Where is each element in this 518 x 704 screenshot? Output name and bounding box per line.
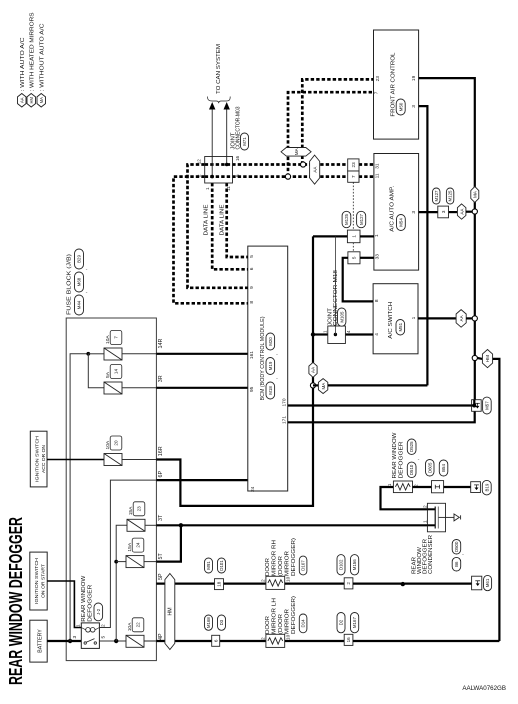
wire heated mirror ground riser bbox=[493, 359, 500, 641]
svg-text:DOOR: DOOR bbox=[265, 558, 271, 576]
wire pin5 to amp pin 33 bbox=[360, 257, 374, 259]
junction circle heated mirror branch bbox=[472, 355, 477, 360]
svg-text:IGNITION SWITCH: IGNITION SWITCH bbox=[34, 436, 40, 482]
svg-text:8: 8 bbox=[249, 301, 255, 304]
svg-text:1: 1 bbox=[205, 187, 210, 190]
CAN bus data line lower M71 to A/C auto amp pin 11 bbox=[205, 175, 374, 178]
legend badge AA : WITH AUTO A/C bbox=[18, 94, 27, 108]
svg-text:DATA LINE: DATA LINE bbox=[204, 204, 210, 236]
wire 4P to door mirror LH defogger bbox=[156, 640, 266, 642]
joint connector M18 box M105 bbox=[313, 333, 328, 335]
svg-text:5: 5 bbox=[249, 255, 255, 258]
rear window defogger element D510 D525 bbox=[393, 481, 412, 493]
svg-text:D525: D525 bbox=[409, 441, 414, 452]
svg-text:6: 6 bbox=[213, 639, 218, 642]
svg-text:,: , bbox=[83, 292, 89, 293]
fuse 15A number 23 bbox=[127, 519, 145, 531]
svg-text:11: 11 bbox=[226, 186, 231, 191]
wire 6P BCM pin 24 relay control bbox=[156, 479, 247, 481]
connector labels M125 M127 bbox=[342, 211, 351, 227]
svg-text:BCM (BODY CONTROL MODULE): BCM (BODY CONTROL MODULE) bbox=[260, 316, 266, 400]
svg-text:10: 10 bbox=[286, 634, 292, 640]
fuse 10A number 7 bbox=[104, 348, 122, 360]
svg-text:161: 161 bbox=[249, 351, 255, 359]
a/c switch box M51 bbox=[373, 284, 418, 354]
svg-text:14R: 14R bbox=[158, 339, 164, 349]
battery box bbox=[30, 620, 47, 662]
svg-text:ACC OR ON: ACC OR ON bbox=[41, 445, 47, 473]
wire BCM pin 171 to ground M57 bbox=[288, 411, 475, 422]
svg-text:16: 16 bbox=[235, 155, 240, 161]
wire riser to fuses 23 and 24 bbox=[116, 525, 127, 641]
svg-text:: WITH HEATED MIRRORS: : WITH HEATED MIRRORS bbox=[30, 12, 36, 91]
wire front air control pin 19 ground rail bbox=[419, 78, 475, 400]
svg-text:2: 2 bbox=[260, 637, 266, 640]
flag MA on front air control CAN branch bbox=[281, 148, 311, 157]
relay J-2 rear window defogger bbox=[81, 623, 99, 649]
svg-text:3R: 3R bbox=[158, 375, 164, 382]
svg-text:23: 23 bbox=[137, 506, 142, 512]
svg-text:M125: M125 bbox=[344, 213, 349, 225]
flag HM on mirror ground branch bbox=[477, 357, 482, 360]
svg-text:,: , bbox=[83, 269, 89, 270]
arrows to CAN system bbox=[209, 102, 215, 110]
svg-text:M91: M91 bbox=[206, 561, 211, 570]
junction battery riser bbox=[68, 639, 72, 643]
wire 14R fuse 7 to BCM pin 161 bbox=[156, 353, 247, 355]
svg-text:A/C SWITCH: A/C SWITCH bbox=[388, 302, 394, 339]
fuse 15A number 24 bbox=[126, 556, 144, 568]
wire 5P to door mirror RH defogger bbox=[156, 582, 266, 584]
wire front air control pin 3 rail bbox=[419, 106, 428, 385]
svg-text:: WITH AUTO A/C: : WITH AUTO A/C bbox=[20, 37, 26, 91]
svg-text:3: 3 bbox=[441, 210, 446, 213]
svg-text:7: 7 bbox=[114, 336, 119, 339]
wire a/c switch pin 1 to ground rail bbox=[418, 317, 456, 319]
svg-text:(DOOR: (DOOR bbox=[278, 614, 284, 634]
svg-text:BATTERY: BATTERY bbox=[38, 629, 44, 653]
wire to ground B19 bbox=[444, 486, 471, 488]
svg-text:D605: D605 bbox=[427, 462, 432, 473]
wire 16R fuse 20 to A/C acc rail bbox=[156, 236, 313, 506]
flag MA on front air acc branch bbox=[313, 384, 318, 386]
svg-text:REAR WINDOW: REAR WINDOW bbox=[392, 432, 398, 478]
svg-text:D3: D3 bbox=[219, 619, 224, 625]
svg-text:170: 170 bbox=[281, 398, 287, 406]
svg-text:,: , bbox=[273, 378, 279, 379]
wire 3T fuse 23 to defogger rail bbox=[156, 524, 427, 526]
svg-text:16: 16 bbox=[346, 637, 351, 643]
svg-text:M68: M68 bbox=[77, 277, 82, 286]
svg-text:6P: 6P bbox=[158, 471, 164, 478]
svg-text:24: 24 bbox=[250, 486, 256, 492]
junction 3T/5T bbox=[179, 523, 183, 527]
svg-text:1: 1 bbox=[422, 520, 428, 523]
flag MA on ground rail bbox=[471, 187, 479, 203]
junction circle acc variants bbox=[310, 383, 315, 388]
wire BCM pin 170 to ground M57 bbox=[288, 404, 472, 406]
svg-text:7: 7 bbox=[351, 175, 356, 178]
svg-text:3: 3 bbox=[411, 211, 417, 214]
svg-text:18: 18 bbox=[217, 581, 222, 587]
inline connector 2 D102/M156 bbox=[344, 578, 353, 589]
fuse 5A number 14 bbox=[104, 382, 122, 394]
svg-text:11: 11 bbox=[375, 173, 381, 178]
brace to CAN system bbox=[208, 97, 231, 104]
svg-text:9: 9 bbox=[249, 286, 255, 289]
svg-text:2: 2 bbox=[346, 582, 351, 585]
svg-text:D14: D14 bbox=[301, 619, 306, 628]
svg-text:IGNITION SWITCH: IGNITION SWITCH bbox=[34, 558, 40, 604]
svg-text:2: 2 bbox=[101, 624, 107, 627]
svg-text:B29: B29 bbox=[77, 255, 82, 263]
svg-text:HM: HM bbox=[29, 96, 34, 103]
svg-text:B19: B19 bbox=[484, 483, 489, 491]
svg-text:3T: 3T bbox=[158, 514, 164, 521]
junction fuse 23/24 riser bbox=[114, 639, 118, 643]
svg-text:2: 2 bbox=[422, 505, 428, 508]
svg-text:1: 1 bbox=[411, 316, 417, 319]
junction circle switch ground bbox=[472, 316, 477, 321]
svg-text:D510: D510 bbox=[409, 464, 414, 475]
svg-text:1: 1 bbox=[374, 234, 380, 237]
junction circle CAN lower bbox=[285, 174, 290, 179]
wire battery riser to fuses 7 and 14 bbox=[70, 354, 88, 641]
flag AA on acc rail bbox=[309, 362, 317, 377]
svg-text:M57: M57 bbox=[485, 401, 490, 410]
svg-text:D102: D102 bbox=[339, 559, 344, 570]
svg-text:AA: AA bbox=[311, 366, 316, 373]
svg-text:12: 12 bbox=[197, 159, 202, 165]
svg-text:CONDENSER: CONDENSER bbox=[428, 535, 434, 574]
svg-text:A/C AUTO AMP.: A/C AUTO AMP. bbox=[390, 185, 396, 232]
svg-text:TO CAN SYSTEM: TO CAN SYSTEM bbox=[216, 43, 222, 94]
svg-text:23: 23 bbox=[375, 76, 381, 82]
svg-text:MA: MA bbox=[321, 382, 326, 390]
svg-text:1: 1 bbox=[76, 624, 82, 627]
svg-text:2: 2 bbox=[260, 579, 266, 582]
door mirror RH defogger element D107 bbox=[266, 576, 285, 589]
svg-text:3: 3 bbox=[72, 636, 78, 639]
ground M57 bbox=[472, 400, 482, 412]
svg-text:D2: D2 bbox=[339, 619, 344, 625]
svg-text:B54: B54 bbox=[441, 464, 446, 472]
svg-text:REAR WINDOW DEFOGGER: REAR WINDOW DEFOGGER bbox=[6, 517, 26, 685]
flag AA on amp ground wire bbox=[457, 204, 466, 219]
ignition switch on or start box bbox=[30, 552, 47, 610]
wire MA branch to front air control pin 3 bbox=[328, 384, 428, 386]
svg-text:D101: D101 bbox=[219, 560, 224, 571]
svg-text:AA: AA bbox=[459, 314, 464, 321]
wire relay pin 2 to 6P bbox=[99, 480, 156, 627]
svg-text:23: 23 bbox=[351, 162, 356, 168]
CAN bus data line to BCM pin 5 bbox=[227, 183, 248, 257]
wire acc rail to joint connector pin 1 and amp pin 1 bbox=[313, 235, 347, 237]
svg-text:M19: M19 bbox=[268, 361, 273, 370]
svg-text:M125: M125 bbox=[448, 190, 453, 202]
svg-text:16R: 16R bbox=[158, 446, 164, 456]
legend badge HM : WITH HEATED MIRRORS bbox=[27, 94, 36, 108]
inline connector pin 3 box M125/M127 bbox=[438, 206, 449, 218]
svg-text:M127: M127 bbox=[359, 213, 364, 225]
legend badge MA : WITHOUT AUTO A/C bbox=[37, 94, 46, 108]
inline connector 18 M91/D101 bbox=[215, 579, 224, 590]
svg-text:M61: M61 bbox=[485, 578, 490, 587]
svg-text:DEFOGGER): DEFOGGER) bbox=[291, 538, 297, 576]
svg-text:AA: AA bbox=[459, 208, 464, 215]
svg-text:M167: M167 bbox=[352, 617, 357, 629]
svg-text:,: , bbox=[459, 554, 465, 555]
svg-text:M51: M51 bbox=[398, 322, 403, 331]
svg-text:M71: M71 bbox=[242, 137, 247, 146]
svg-text:DATA LINE: DATA LINE bbox=[219, 204, 225, 236]
wire battery feed to relay and fuse 22 bbox=[47, 640, 81, 642]
junction circle CAN upper bbox=[301, 162, 306, 167]
svg-text:: WITHOUT AUTO A/C: : WITHOUT AUTO A/C bbox=[40, 23, 46, 91]
CAN bus data line to BCM pin 6 bbox=[212, 183, 248, 269]
rear window defogger condenser B6 D500 bbox=[427, 503, 445, 532]
svg-text:20: 20 bbox=[114, 440, 119, 446]
svg-text:95: 95 bbox=[249, 386, 255, 392]
svg-text:J-2: J-2 bbox=[96, 608, 101, 615]
svg-text:MIRROR: MIRROR bbox=[285, 609, 291, 634]
svg-text:D107: D107 bbox=[301, 560, 306, 571]
junction mirror ground bbox=[401, 582, 405, 586]
svg-text:5: 5 bbox=[352, 256, 357, 259]
svg-text:7: 7 bbox=[374, 91, 380, 94]
svg-text:M20: M20 bbox=[268, 337, 273, 346]
joint connector M71 box bbox=[205, 157, 233, 184]
svg-text:MA: MA bbox=[39, 97, 44, 103]
CAN bus data line M71 pin12 to BCM pin 9 bbox=[188, 165, 248, 288]
ignition switch acc or on box bbox=[30, 431, 47, 487]
CAN bus data line upper M71 to A/C auto amp pin 31 bbox=[205, 163, 374, 166]
condenser case ground arrow bbox=[454, 514, 459, 521]
a/c auto amp box M54 bbox=[374, 154, 419, 271]
svg-text:6: 6 bbox=[249, 267, 255, 270]
wire 3R fuse 14 to BCM pin 95 bbox=[156, 387, 247, 389]
inline connector 16 D2/M167 bbox=[344, 634, 353, 645]
CAN branch to front air control pin 23 bbox=[302, 79, 373, 164]
wire pin5 branch to a/c switch pin 8 bbox=[343, 258, 373, 302]
svg-text:REAR WINDOW: REAR WINDOW bbox=[81, 575, 87, 621]
svg-text:DEFOGGER): DEFOGGER) bbox=[291, 596, 297, 634]
svg-text:4: 4 bbox=[374, 333, 380, 336]
svg-text:2: 2 bbox=[197, 174, 202, 177]
svg-text:5P: 5P bbox=[158, 573, 164, 580]
svg-text:5T: 5T bbox=[158, 553, 164, 560]
svg-text:DEFOGGER: DEFOGGER bbox=[87, 584, 93, 621]
svg-text:FRONT AIR CONTROL: FRONT AIR CONTROL bbox=[391, 53, 397, 117]
flag AA on switch ground wire bbox=[456, 310, 466, 328]
svg-text:,: , bbox=[273, 354, 279, 355]
svg-text:22: 22 bbox=[136, 622, 141, 628]
svg-text:M127: M127 bbox=[434, 190, 439, 202]
svg-text:14: 14 bbox=[114, 369, 119, 375]
CAN bus data line M71 pin2 to BCM pin 8 bbox=[174, 177, 248, 304]
flag AA on A/C auto amp CAN branch bbox=[310, 155, 320, 184]
svg-text:171: 171 bbox=[281, 416, 287, 424]
BCM body control module box M18 M19 M20 bbox=[248, 246, 288, 491]
svg-text:M44: M44 bbox=[77, 300, 82, 309]
svg-text:33: 33 bbox=[375, 254, 381, 260]
svg-text:AALWA0762GB: AALWA0762GB bbox=[462, 685, 506, 692]
CAN branch to front air control pin 7 bbox=[288, 92, 374, 176]
svg-text:5: 5 bbox=[101, 636, 107, 639]
svg-text:19: 19 bbox=[411, 75, 417, 81]
svg-text:DEFOGGER: DEFOGGER bbox=[399, 441, 405, 478]
svg-text:D500: D500 bbox=[454, 541, 459, 552]
fuse block J/B outline bbox=[66, 318, 156, 661]
svg-text:M168: M168 bbox=[206, 617, 211, 629]
svg-text:10: 10 bbox=[286, 576, 292, 582]
inline connector pin 1 on acc wire bbox=[347, 230, 360, 243]
fuse 10A number 20 bbox=[104, 454, 122, 466]
flag HM on mirror feed bbox=[165, 574, 175, 650]
inline connector 6 M168/D3 bbox=[212, 635, 220, 646]
svg-text:B6: B6 bbox=[454, 561, 459, 567]
svg-text:4P: 4P bbox=[158, 633, 164, 640]
inline connector pins 23 and 7 of M125/M127 on CAN bus bbox=[348, 159, 359, 171]
wire mirror RH to ground M61 bbox=[285, 582, 345, 584]
svg-text:MIRROR RH: MIRROR RH bbox=[272, 540, 278, 576]
svg-text:M105: M105 bbox=[339, 311, 344, 323]
svg-text:M156: M156 bbox=[352, 559, 357, 571]
ground B19 bbox=[471, 482, 481, 493]
inline connector D605 B54 bbox=[432, 481, 444, 493]
svg-text:MIRROR: MIRROR bbox=[285, 551, 291, 576]
svg-text:AA: AA bbox=[312, 166, 317, 173]
svg-text:MA: MA bbox=[473, 190, 478, 198]
svg-text:M50: M50 bbox=[398, 102, 403, 111]
wire defogger to inline connector D605/B54 bbox=[413, 486, 432, 488]
svg-text:MIRROR LH: MIRROR LH bbox=[272, 598, 278, 634]
svg-text:24: 24 bbox=[136, 542, 141, 548]
svg-text:3: 3 bbox=[411, 105, 417, 108]
svg-text:M54: M54 bbox=[399, 218, 404, 227]
wire ignition acc to fuse 20 bbox=[47, 459, 104, 461]
svg-text:DOOR: DOOR bbox=[265, 616, 271, 634]
svg-text:FUSE BLOCK (J/B): FUSE BLOCK (J/B) bbox=[67, 254, 73, 315]
svg-text:1: 1 bbox=[387, 483, 393, 486]
fuse 10A number 22 bbox=[126, 635, 144, 647]
svg-text:AA: AA bbox=[19, 97, 24, 103]
junction circle amp ground bbox=[472, 209, 477, 214]
svg-text:8: 8 bbox=[374, 299, 380, 302]
svg-text:6: 6 bbox=[235, 174, 240, 177]
wire 5T fuse 24 joining 3T rail bbox=[156, 525, 181, 561]
svg-text:M18: M18 bbox=[268, 386, 273, 395]
svg-text:HM: HM bbox=[168, 607, 174, 615]
svg-text:MA: MA bbox=[294, 147, 299, 155]
svg-text:,: , bbox=[415, 459, 421, 460]
wire ignition on/start to relay pin 1 bbox=[47, 581, 81, 628]
ground M61 bbox=[472, 576, 482, 590]
wire defogger feed bbox=[381, 487, 428, 509]
junction acc rail at M105 bbox=[311, 332, 315, 336]
front air control box M50 bbox=[374, 30, 419, 139]
door mirror LH defogger element D14 bbox=[266, 634, 285, 647]
svg-text:31: 31 bbox=[375, 163, 381, 169]
svg-text:1: 1 bbox=[351, 235, 356, 238]
svg-text:HM: HM bbox=[485, 355, 490, 362]
svg-text:ON OR START: ON OR START bbox=[41, 564, 47, 598]
inline connector pin 5 bbox=[348, 252, 360, 264]
svg-text:(DOOR: (DOOR bbox=[278, 556, 284, 576]
wire mirror LH to heated mirror riser bbox=[285, 640, 345, 642]
wire a/c auto amp pin 3 to ground rail bbox=[419, 211, 438, 213]
